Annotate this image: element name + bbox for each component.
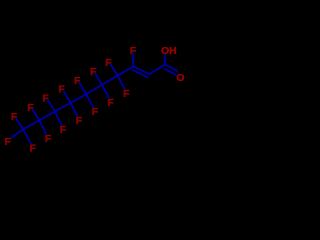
wire: double bond C2=C3 second line (132, 70, 147, 77)
svg-text:F: F (42, 93, 49, 105)
wire: bond C1-OH (164, 55, 166, 65)
svg-text:F: F (105, 57, 112, 69)
wire: bond C1-C2 (150, 65, 165, 75)
wire: bond C10-F (11, 129, 23, 137)
wire: bond C4-F (111, 65, 118, 76)
wire: bond C4-F (118, 76, 125, 89)
wire: bond C7-F (64, 92, 71, 103)
svg-text:F: F (130, 45, 137, 57)
wire: bond C8-C9 (39, 111, 55, 120)
svg-text:F: F (11, 111, 18, 123)
svg-text:F: F (58, 84, 65, 96)
wire: bond C4-C5 (102, 76, 118, 85)
wire: double bond C1=O main line (165, 65, 177, 71)
svg-text:F: F (45, 133, 52, 145)
wire: bond C6-F (79, 83, 86, 94)
svg-text:F: F (27, 102, 34, 114)
wire: double bond C2=C3 main line (133, 67, 149, 75)
svg-text:F: F (74, 75, 81, 87)
wire: bond C9-C10 (23, 120, 39, 129)
wire: bond C3-C4 (118, 67, 134, 76)
wire: bond C8-F (55, 111, 61, 124)
wire: double bond C1=O second line (165, 69, 175, 75)
svg-text:OH: OH (161, 45, 177, 57)
wire: bond C9-F (33, 110, 40, 121)
svg-text:F: F (29, 143, 36, 155)
wire: bond C8-F (48, 101, 55, 112)
svg-text:F: F (5, 136, 12, 148)
svg-text:F: F (123, 88, 130, 100)
wire: bond C7-F (71, 103, 78, 116)
wire: bond C3-F (132, 54, 134, 67)
svg-text:F: F (76, 115, 83, 127)
svg-text:F: F (60, 124, 67, 136)
wire: bond C5-F (102, 85, 109, 98)
wire: bond C7-C8 (55, 103, 71, 112)
wire: bond C5-F (95, 74, 102, 85)
wire: bond C10-F (16, 119, 23, 129)
wire: bond C6-C7 (71, 94, 87, 103)
chemical structure: perfluorinated alkenoic acid skeletal diagram (0, 0, 189, 189)
wire: bond C10-F (23, 129, 31, 143)
wire: bond C9-F (39, 120, 46, 133)
svg-text:F: F (92, 106, 99, 118)
svg-text:O: O (176, 72, 184, 84)
wire: bond C6-F (86, 94, 93, 107)
svg-text:F: F (90, 66, 97, 78)
svg-text:F: F (107, 97, 114, 109)
wire: bond C5-C6 (86, 85, 102, 94)
